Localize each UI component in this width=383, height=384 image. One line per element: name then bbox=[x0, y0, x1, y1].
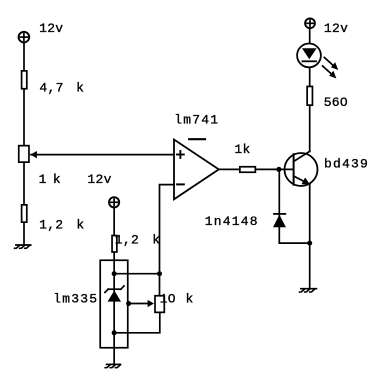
node upper row left bbox=[112, 271, 117, 276]
wire op-amp output to transistor base bbox=[219, 168, 294, 170]
supply +12v top-right bbox=[305, 18, 315, 28]
node upper row right bbox=[157, 271, 162, 276]
resistor 1k bbox=[240, 167, 256, 173]
resistor 1,2 k middle bbox=[112, 236, 117, 253]
sensor box lm335 bbox=[100, 260, 128, 348]
wire R 4,7k to pot 1k bbox=[23, 90, 25, 146]
wire emitter down to ground bbox=[309, 184, 311, 288]
svg-text:1: 1 bbox=[39, 172, 47, 187]
supply +12v top-left bbox=[19, 32, 30, 43]
resistor 4,7 k bbox=[22, 71, 27, 89]
wire upper row to pot 10k top bbox=[114, 273, 159, 275]
wire supply to R 4,7k bbox=[23, 42, 25, 70]
wire pot 1k to R 1,2k to ground bbox=[23, 163, 25, 245]
zener diode of lm335 bbox=[105, 286, 124, 302]
node output junction bbox=[276, 167, 281, 172]
svg-text:k: k bbox=[76, 217, 84, 232]
ground bottom-right bbox=[300, 289, 317, 292]
svg-text:12v: 12v bbox=[39, 21, 63, 36]
ground left bbox=[15, 245, 31, 248]
svg-text:1,2: 1,2 bbox=[39, 217, 63, 232]
svg-text:lm741: lm741 bbox=[174, 113, 219, 128]
arrowhead into pot 10k bbox=[148, 300, 154, 307]
svg-text:1,2: 1,2 bbox=[115, 232, 139, 247]
resistor 1,2 k left bbox=[22, 205, 27, 222]
svg-text:k: k bbox=[53, 172, 61, 187]
svg-text:12v: 12v bbox=[324, 21, 348, 36]
svg-text:56O: 56O bbox=[324, 95, 348, 110]
wire op-amp - input down to pot 10k bbox=[160, 185, 175, 295]
svg-text:1k: 1k bbox=[234, 142, 250, 157]
node adj on box edge bbox=[126, 301, 131, 306]
svg-text:12v: 12v bbox=[87, 172, 111, 187]
wire wiper adj to pot 10k bbox=[129, 303, 148, 305]
svg-text:1O: 1O bbox=[160, 292, 176, 307]
potentiometer 10 k bbox=[155, 296, 164, 313]
wire op-amp + input to pot 1k wiper bbox=[31, 154, 174, 156]
svg-text:lm335: lm335 bbox=[53, 291, 98, 306]
op-amp U1 lm741 bbox=[174, 139, 219, 199]
wire middle column supply to ground bbox=[113, 207, 115, 364]
svg-text:k: k bbox=[76, 81, 84, 96]
node lower row bbox=[112, 330, 117, 335]
svg-text:bd439: bd439 bbox=[324, 157, 369, 172]
resistor 560 bbox=[307, 86, 312, 105]
wire supply through LED and 560 to collector bbox=[309, 28, 311, 151]
arrowhead into pot 1k bbox=[30, 151, 37, 158]
transistor Q1 bd439 bbox=[285, 151, 318, 186]
diode D1 1n4148 bbox=[273, 214, 286, 227]
node emitter/diode junction bbox=[307, 241, 312, 246]
svg-text:k: k bbox=[152, 232, 160, 247]
LED D2 bbox=[297, 44, 338, 79]
supply +12v middle bbox=[109, 197, 119, 207]
ground bottom-middle bbox=[105, 364, 120, 367]
wire diode branch bbox=[279, 169, 309, 243]
svg-text:1n4148: 1n4148 bbox=[205, 214, 259, 229]
wire lower row to pot 10k bottom bbox=[114, 313, 160, 333]
potentiometer 1 k bbox=[19, 146, 29, 163]
svg-text:4,7: 4,7 bbox=[39, 81, 63, 96]
svg-text:k: k bbox=[186, 292, 194, 307]
